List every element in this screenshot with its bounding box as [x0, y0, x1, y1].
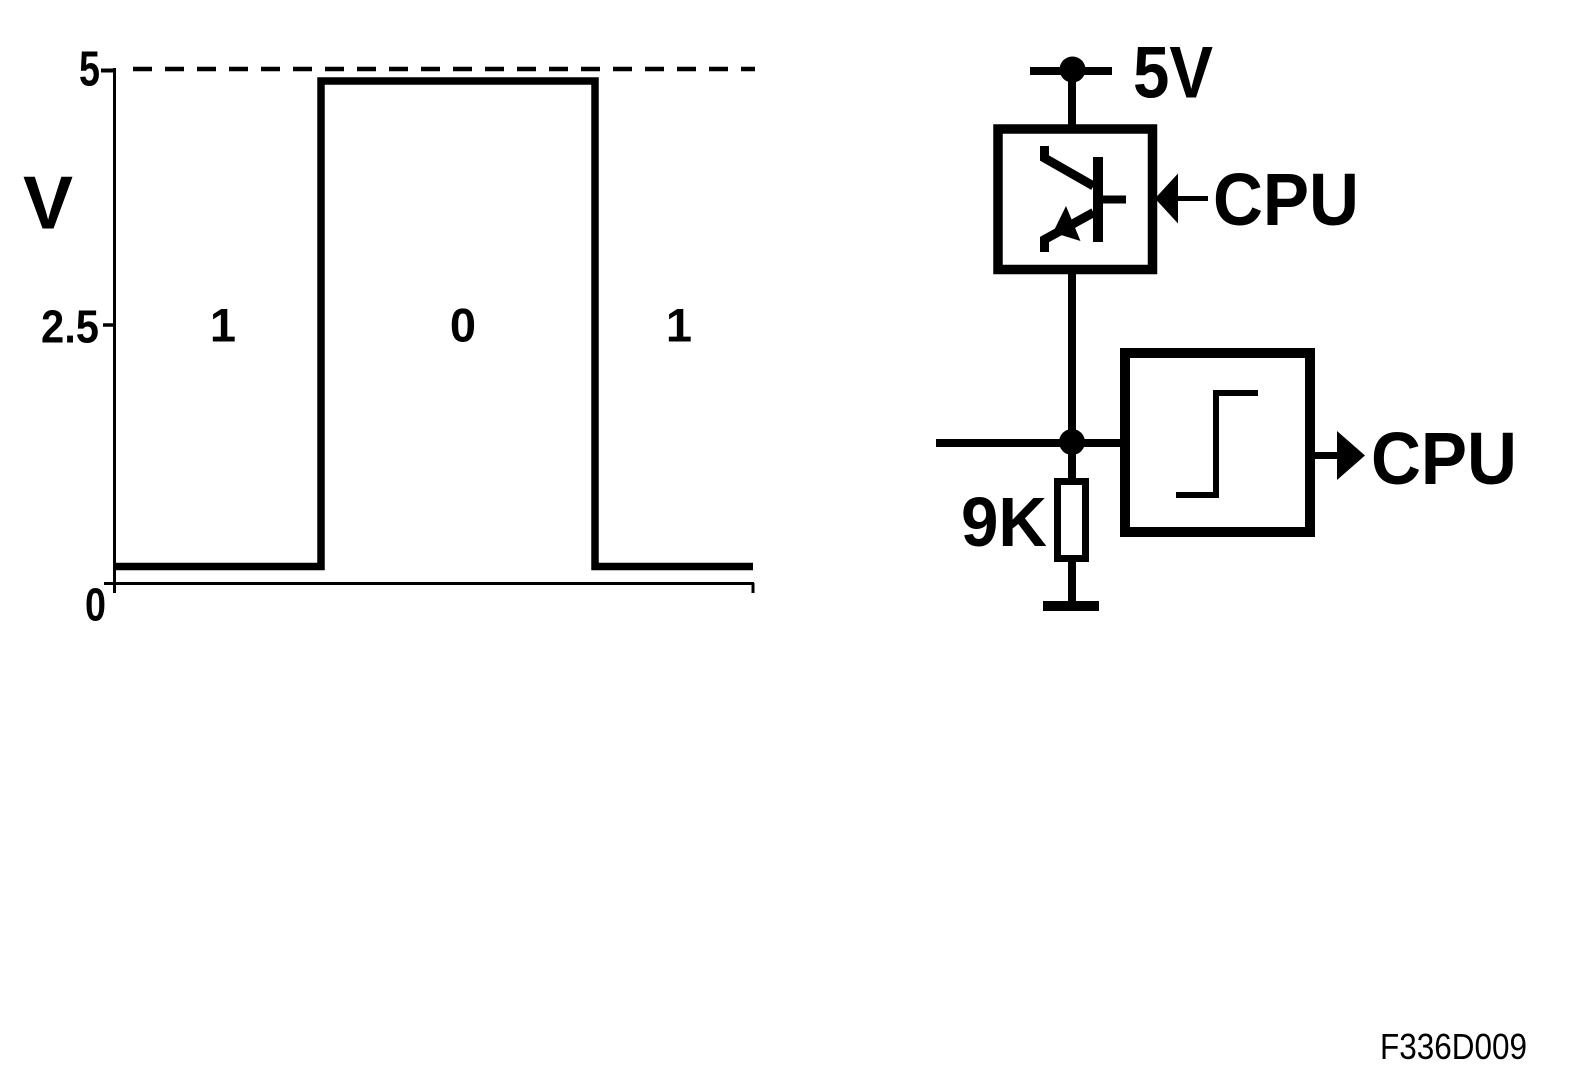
svg-text:F336D009: F336D009 [1380, 1026, 1527, 1067]
svg-text:CPU: CPU [1213, 158, 1359, 241]
svg-text:5V: 5V [1133, 33, 1213, 114]
svg-text:9K: 9K [961, 483, 1047, 561]
svg-text:5: 5 [79, 43, 100, 97]
svg-text:0: 0 [450, 299, 476, 352]
svg-text:1: 1 [210, 299, 236, 352]
svg-text:V: V [23, 161, 73, 245]
svg-text:CPU: CPU [1371, 417, 1517, 500]
svg-text:1: 1 [666, 299, 692, 352]
svg-text:0: 0 [85, 579, 106, 631]
svg-text:2.5: 2.5 [41, 301, 99, 353]
